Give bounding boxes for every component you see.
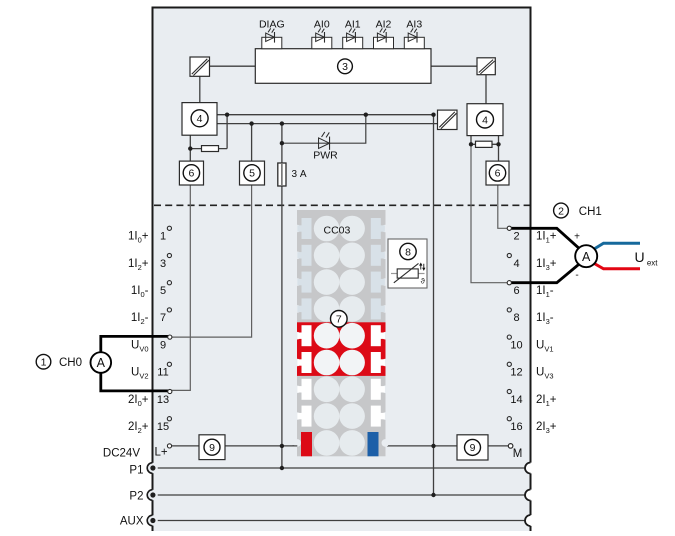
junction R2 left <box>469 142 473 146</box>
thermistor arrows <box>420 263 425 270</box>
svg-text:6: 6 <box>188 168 194 180</box>
svg-text:CC03: CC03 <box>324 225 351 237</box>
LED AI3 box <box>404 37 424 48</box>
power bus AUX right connector <box>525 515 536 526</box>
pin 5 terminal <box>167 281 171 285</box>
LED DIAG diode <box>266 28 275 42</box>
svg-text:10: 10 <box>510 339 522 351</box>
pin 14 terminal <box>507 389 511 393</box>
pin 15 terminal <box>167 417 171 421</box>
svg-text:AI0: AI0 <box>314 18 330 30</box>
wire fuse branch <box>281 124 283 468</box>
isolator barrier left <box>190 57 210 76</box>
svg-text:11: 11 <box>157 367 168 379</box>
isolator barrier right-top <box>477 58 495 75</box>
svg-text:2: 2 <box>513 231 519 243</box>
wire U4-right to R2 <box>471 136 499 145</box>
wire box5 to pin 9 <box>172 185 252 337</box>
pin 10 terminal <box>507 335 511 339</box>
svg-text:7: 7 <box>160 312 166 324</box>
callout 4 right <box>477 111 494 128</box>
blue wire to Uext <box>594 243 640 249</box>
junction fuse branch / PWR LED <box>280 141 284 145</box>
svg-text:1I2-: 1I2- <box>131 312 149 326</box>
box U6 right <box>486 161 509 185</box>
wire P1 line <box>153 467 526 469</box>
svg-text:P2: P2 <box>129 490 143 502</box>
junction lower bus / fuse branch <box>280 121 284 125</box>
wire L+ line stub at block edge <box>293 445 298 447</box>
coding section highlight (red) <box>297 322 386 376</box>
svg-text:15: 15 <box>157 421 169 433</box>
svg-text:5: 5 <box>249 168 255 180</box>
svg-text:1: 1 <box>160 231 166 243</box>
thermistor symbol lead right <box>418 273 424 275</box>
pin 2 terminal <box>507 226 511 230</box>
LED AI2 diode <box>377 28 386 42</box>
svg-text:1I0-: 1I0- <box>131 285 149 299</box>
pin 4 terminal <box>507 253 511 257</box>
svg-text:6: 6 <box>513 285 519 297</box>
wire U4-left to R1 <box>190 135 227 161</box>
box U3 (backplane bus interface) <box>255 49 431 84</box>
callout 8 <box>400 243 416 259</box>
svg-text:9: 9 <box>209 442 215 454</box>
power bus P1 left connector <box>147 463 158 474</box>
wire R2 to box6-right <box>498 144 500 161</box>
wire box3 to left isolator <box>210 65 256 67</box>
svg-text:8: 8 <box>513 312 519 324</box>
power bus AUX left connector <box>147 515 158 526</box>
pin 8 terminal <box>507 308 511 312</box>
junction U4-left / R1 <box>188 146 192 150</box>
wire top supply bus <box>217 114 434 116</box>
svg-text:A: A <box>582 250 591 264</box>
svg-text:6: 6 <box>495 168 501 180</box>
wire box3 to right isolator <box>431 65 477 67</box>
LED AI0 diode <box>316 28 325 42</box>
svg-text:CH0: CH0 <box>59 357 82 369</box>
resistor R1 <box>202 146 219 152</box>
box U4 left (ADC) <box>182 103 217 136</box>
wire left isolator to U4-left <box>199 76 201 102</box>
ammeter A (CH0) <box>91 352 112 373</box>
svg-text:AI2: AI2 <box>376 18 392 30</box>
pin L+ terminal <box>167 444 171 448</box>
svg-text:4: 4 <box>197 113 203 125</box>
box U8 (reference junction) <box>388 239 427 288</box>
svg-text:DC24V: DC24V <box>103 448 140 460</box>
svg-text:3: 3 <box>160 258 166 270</box>
fuse F1 internal conductor <box>281 164 283 185</box>
isolator barrier right-mid <box>438 110 458 129</box>
LED AI2 box <box>374 37 394 48</box>
pin M terminal <box>508 444 513 449</box>
svg-text:3 A: 3 A <box>292 169 307 180</box>
pin 1 terminal <box>167 226 171 230</box>
pin 3 terminal <box>167 253 171 257</box>
junction top bus / PWR branch <box>364 113 368 117</box>
svg-text:DIAG: DIAG <box>259 18 285 30</box>
wire ground drop to M and P2 <box>433 115 435 495</box>
callout 2 <box>554 203 569 218</box>
dashed separator line <box>154 204 530 206</box>
CH0 ammeter loop wire <box>101 336 170 391</box>
callout 7 <box>331 311 348 328</box>
wire box6-left to pin 13 <box>172 185 191 390</box>
power bus P1 right connector <box>525 463 536 474</box>
svg-text:AI3: AI3 <box>406 18 422 30</box>
svg-text:1I1-: 1I1- <box>536 285 554 299</box>
junction R2 right <box>496 142 500 146</box>
thermistor symbol body <box>397 269 418 278</box>
pin 9 terminal <box>168 335 172 339</box>
wire P2 line <box>153 494 526 496</box>
callout 6 right <box>489 165 505 181</box>
svg-text:+: + <box>574 231 580 242</box>
callout 4 left <box>191 110 208 127</box>
svg-text:AUX: AUX <box>120 516 144 528</box>
junction P1 / fuse branch <box>280 466 284 470</box>
svg-text:9: 9 <box>470 442 476 454</box>
junction top bus / ground drop <box>431 113 435 117</box>
svg-text:16: 16 <box>510 421 522 433</box>
callout 9 right <box>465 439 481 455</box>
svg-text:L+: L+ <box>154 447 167 459</box>
fuse F1 3A <box>278 163 286 186</box>
svg-text:AI1: AI1 <box>345 18 361 30</box>
wire right isolator to U4-right <box>485 75 487 104</box>
svg-text:13: 13 <box>157 394 169 406</box>
module enclosure <box>153 8 531 536</box>
pin 7 terminal <box>167 308 171 312</box>
blue coding key square <box>368 432 379 456</box>
box U4 right (ADC) <box>467 104 503 136</box>
junction L+ line / fuse branch <box>280 444 284 448</box>
power bus P2 left connector <box>147 490 158 501</box>
svg-text:4: 4 <box>482 114 488 126</box>
wire PWR LED branch <box>282 115 366 144</box>
box U5 <box>240 161 265 185</box>
thermistor symbol lead left <box>391 273 397 275</box>
callout 3 <box>338 59 353 74</box>
svg-text:14: 14 <box>510 394 522 406</box>
CC03 terminal rows <box>293 216 389 456</box>
junction M line / ground drop <box>431 444 435 448</box>
svg-text:8: 8 <box>405 246 411 258</box>
CH1 wire from pin 6 <box>510 265 578 283</box>
pin 12 terminal <box>507 362 511 366</box>
CH1 wire from pin 2 <box>510 228 578 248</box>
pin 16 terminal <box>507 417 511 421</box>
box U9 left (reverse polarity protection) <box>199 435 225 460</box>
pin 6 terminal <box>507 281 511 285</box>
thermistor symbol diagonal <box>394 263 419 282</box>
box U6 left <box>179 161 203 185</box>
red wire to Uext <box>594 264 640 269</box>
svg-text:12: 12 <box>510 367 522 379</box>
LED AI0 box <box>312 37 332 48</box>
pin 13 terminal <box>168 389 172 393</box>
svg-text:-: - <box>575 270 578 281</box>
LED PWR <box>319 132 330 150</box>
svg-text:PWR: PWR <box>313 150 338 162</box>
LED AI1 diode <box>347 28 356 42</box>
svg-text:7: 7 <box>336 314 342 326</box>
svg-text:2: 2 <box>558 205 564 217</box>
wire box6-right to pin 2 <box>498 185 509 228</box>
wire bus to box5 <box>251 124 253 162</box>
wire R2 to pin 6 <box>471 144 509 282</box>
svg-text:3: 3 <box>342 61 348 73</box>
junction lower bus / box5 <box>249 121 253 125</box>
svg-text:9: 9 <box>160 339 166 351</box>
svg-text:P1: P1 <box>129 464 143 476</box>
LED AI3 diode <box>408 28 417 42</box>
wire resistor R1 riser <box>226 115 228 149</box>
svg-text:1: 1 <box>41 357 47 369</box>
wire AUX line <box>153 520 526 522</box>
junction P2 / ground drop <box>431 493 435 497</box>
svg-text:4: 4 <box>513 258 519 270</box>
svg-text:5: 5 <box>160 285 166 297</box>
callout 5 <box>244 165 260 181</box>
power bus P2 right connector <box>525 490 536 501</box>
callout 6 left <box>183 165 199 181</box>
red coding key square <box>301 432 312 456</box>
svg-text:M: M <box>513 448 523 460</box>
ammeter A (CH1) <box>575 245 597 267</box>
LED DIAG box <box>262 37 282 48</box>
svg-text:CH1: CH1 <box>579 206 602 218</box>
callout 1 <box>36 354 51 369</box>
wire lower supply bus <box>217 123 438 125</box>
box U9 right (reverse polarity protection) <box>457 435 488 460</box>
LED AI1 box <box>343 37 363 48</box>
callout 9 left <box>204 439 220 455</box>
svg-text:1I3-: 1I3- <box>536 312 554 326</box>
svg-text:A: A <box>97 356 106 370</box>
junction top bus / R1 riser <box>225 113 229 117</box>
wire L+ to M supply line <box>172 445 510 447</box>
pin 11 terminal <box>167 362 171 366</box>
connection plug CC03 body <box>297 210 386 456</box>
resistor R2 <box>476 141 493 147</box>
